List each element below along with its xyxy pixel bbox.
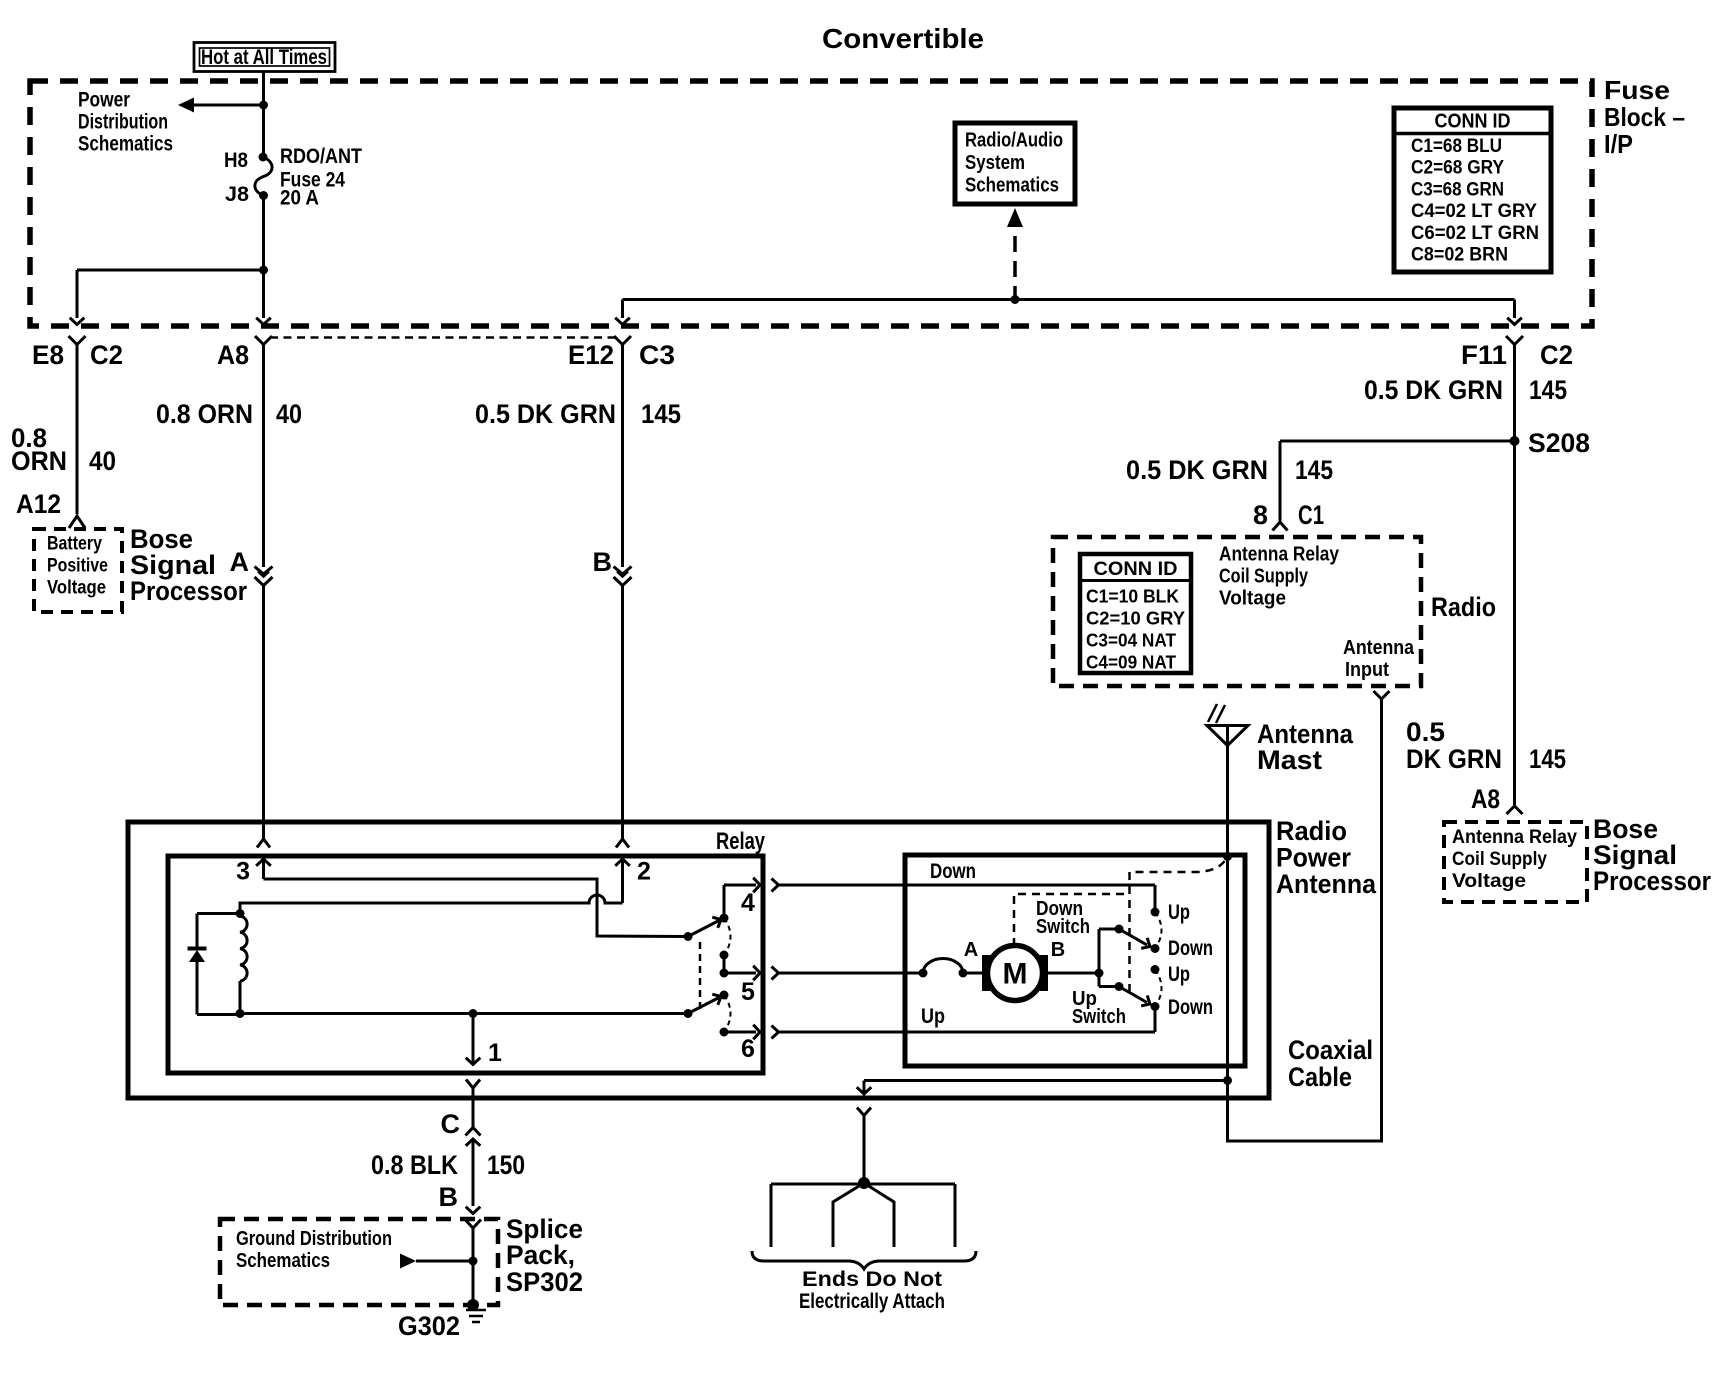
svg-text:Distribution: Distribution <box>78 111 168 134</box>
svg-text:DK GRN: DK GRN <box>1406 744 1502 774</box>
svg-text:0.5 DK GRN: 0.5 DK GRN <box>1364 375 1503 405</box>
svg-text:5: 5 <box>741 978 755 1006</box>
svg-text:1: 1 <box>488 1039 502 1067</box>
svg-text:I/P: I/P <box>1604 129 1633 159</box>
svg-text:150: 150 <box>487 1150 525 1180</box>
svg-text:CONN ID: CONN ID <box>1435 111 1511 133</box>
svg-text:145: 145 <box>1529 375 1567 405</box>
svg-text:J8: J8 <box>225 183 249 206</box>
svg-text:H8: H8 <box>224 149 248 172</box>
svg-text:Radio/Audio: Radio/Audio <box>965 130 1063 152</box>
svg-text:CONN ID: CONN ID <box>1094 559 1178 580</box>
svg-text:Positive: Positive <box>47 555 108 577</box>
svg-text:F11: F11 <box>1461 340 1507 370</box>
svg-text:Down: Down <box>1168 937 1213 960</box>
svg-text:ORN: ORN <box>11 446 67 476</box>
svg-text:Up: Up <box>921 1005 945 1028</box>
svg-text:Pack,: Pack, <box>506 1240 575 1270</box>
svg-text:RDO/ANT: RDO/ANT <box>280 145 362 168</box>
svg-text:Block –: Block – <box>1604 102 1685 132</box>
svg-text:E12: E12 <box>568 340 614 370</box>
svg-text:145: 145 <box>1529 744 1566 774</box>
svg-text:Up: Up <box>1168 901 1190 924</box>
svg-text:Voltage: Voltage <box>1452 870 1526 892</box>
svg-text:Antenna Relay: Antenna Relay <box>1219 544 1340 566</box>
svg-text:Convertible: Convertible <box>822 23 984 54</box>
svg-text:145: 145 <box>1295 455 1333 485</box>
svg-text:C3=68 GRN: C3=68 GRN <box>1411 179 1504 200</box>
svg-text:Fuse: Fuse <box>1604 75 1670 105</box>
svg-text:C4=09 NAT: C4=09 NAT <box>1086 652 1177 673</box>
svg-text:Coil Supply: Coil Supply <box>1452 848 1547 870</box>
svg-text:B: B <box>593 547 613 577</box>
svg-text:A12: A12 <box>16 489 61 519</box>
svg-text:3: 3 <box>236 858 250 886</box>
svg-text:Processor: Processor <box>130 576 247 606</box>
svg-text:Radio: Radio <box>1276 816 1347 846</box>
svg-text:B: B <box>1051 939 1065 961</box>
svg-text:Electrically Attach: Electrically Attach <box>799 1290 945 1313</box>
svg-text:SP302: SP302 <box>506 1267 583 1297</box>
svg-text:145: 145 <box>641 399 681 429</box>
svg-text:Switch: Switch <box>1036 915 1090 938</box>
svg-text:C3=04 NAT: C3=04 NAT <box>1086 630 1177 651</box>
svg-text:Schematics: Schematics <box>965 175 1059 197</box>
svg-text:4: 4 <box>741 889 755 917</box>
svg-text:C1: C1 <box>1298 500 1324 530</box>
svg-text:C1=10 BLK: C1=10 BLK <box>1086 586 1180 607</box>
svg-text:C: C <box>441 1109 461 1139</box>
svg-text:Power: Power <box>78 89 130 112</box>
svg-text:C6=02 LT GRN: C6=02 LT GRN <box>1411 223 1539 244</box>
svg-text:Power: Power <box>1276 843 1351 873</box>
svg-text:A: A <box>964 939 978 961</box>
svg-text:C4=02 LT GRY: C4=02 LT GRY <box>1411 201 1537 222</box>
svg-text:C8=02 BRN: C8=02 BRN <box>1411 245 1508 266</box>
svg-text:20 A: 20 A <box>280 187 319 210</box>
svg-text:Schematics: Schematics <box>78 133 173 156</box>
svg-text:C2: C2 <box>1540 340 1573 370</box>
svg-text:40: 40 <box>89 446 116 476</box>
svg-text:A: A <box>230 547 250 577</box>
svg-text:Up: Up <box>1168 963 1190 986</box>
svg-text:Voltage: Voltage <box>1219 588 1286 610</box>
svg-text:40: 40 <box>276 399 302 429</box>
svg-text:G302: G302 <box>398 1311 460 1341</box>
svg-text:B: B <box>439 1182 459 1212</box>
svg-text:C2: C2 <box>90 340 123 370</box>
svg-text:System: System <box>965 152 1025 174</box>
svg-text:0.8 BLK: 0.8 BLK <box>371 1150 458 1180</box>
svg-text:0.5 DK GRN: 0.5 DK GRN <box>1126 455 1268 485</box>
svg-text:Antenna: Antenna <box>1343 637 1415 659</box>
svg-text:0.8 ORN: 0.8 ORN <box>156 399 253 429</box>
svg-text:Cable: Cable <box>1288 1062 1352 1092</box>
svg-text:S208: S208 <box>1528 428 1590 458</box>
svg-text:C1=68 BLU: C1=68 BLU <box>1411 136 1502 157</box>
svg-text:6: 6 <box>741 1035 755 1063</box>
svg-text:E8: E8 <box>32 340 64 370</box>
svg-text:C3: C3 <box>639 340 675 370</box>
svg-text:Mast: Mast <box>1257 745 1322 775</box>
svg-text:Antenna Relay: Antenna Relay <box>1452 826 1577 848</box>
svg-text:Coaxial: Coaxial <box>1288 1035 1373 1065</box>
svg-text:Voltage: Voltage <box>47 577 106 599</box>
svg-text:Schematics: Schematics <box>236 1250 330 1272</box>
svg-text:Down: Down <box>930 860 976 883</box>
svg-text:Input: Input <box>1345 659 1389 681</box>
svg-text:Hot at All Times: Hot at All Times <box>201 46 327 69</box>
svg-text:Processor: Processor <box>1593 866 1711 896</box>
svg-text:M: M <box>1003 958 1028 991</box>
svg-text:Switch: Switch <box>1072 1005 1126 1028</box>
svg-text:0.5: 0.5 <box>1406 717 1445 747</box>
svg-text:0.5 DK GRN: 0.5 DK GRN <box>475 399 616 429</box>
svg-text:A8: A8 <box>1471 784 1500 814</box>
svg-text:Coil Supply: Coil Supply <box>1219 566 1309 588</box>
svg-text:Relay: Relay <box>716 828 765 855</box>
svg-text:2: 2 <box>637 858 651 886</box>
svg-text:Antenna: Antenna <box>1276 869 1377 899</box>
svg-text:Down: Down <box>1168 996 1213 1019</box>
svg-text:C2=10 GRY: C2=10 GRY <box>1086 608 1186 629</box>
svg-text:Ground Distribution: Ground Distribution <box>236 1228 392 1250</box>
svg-text:Radio: Radio <box>1431 592 1496 622</box>
svg-text:A8: A8 <box>217 340 249 370</box>
svg-text:Ends Do Not: Ends Do Not <box>802 1268 942 1291</box>
svg-text:8: 8 <box>1253 500 1268 530</box>
svg-text:Battery: Battery <box>47 533 102 555</box>
svg-text:C2=68 GRY: C2=68 GRY <box>1411 158 1504 179</box>
